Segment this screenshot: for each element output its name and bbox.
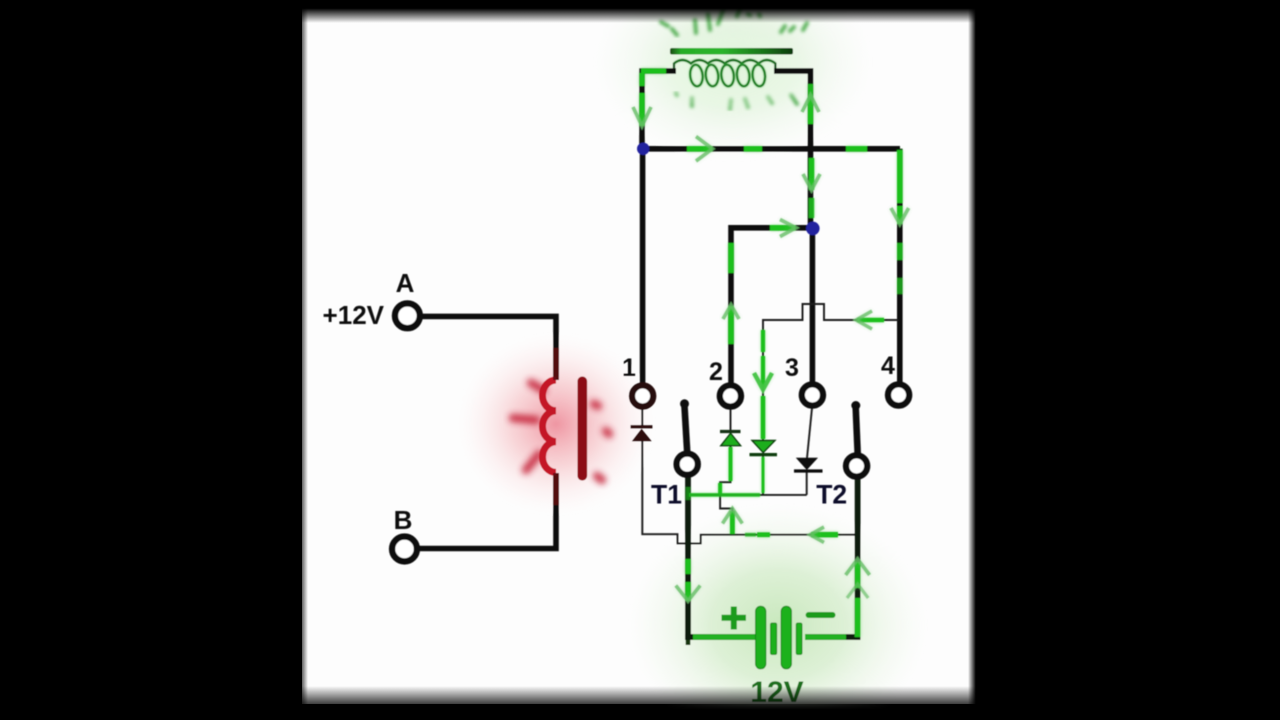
flow: wire2 up <box>728 243 734 273</box>
flow: T1 stem <box>686 487 691 500</box>
top coil L1 : scalloped top line <box>674 60 775 71</box>
flow: mid rail <box>689 493 760 497</box>
flow: bottom wire <box>745 533 756 537</box>
junction node 1 <box>637 143 649 155</box>
battery minus sign <box>809 612 833 618</box>
flow: down link to D3 <box>761 330 765 352</box>
thin: jog down to bottom wire <box>720 495 732 535</box>
svg-text:2: 2 <box>709 358 723 386</box>
wire: B to red transformer <box>417 473 556 549</box>
terminal 4 <box>888 384 909 405</box>
diode D1 (dark) <box>631 427 653 441</box>
white schematic panel <box>301 8 977 704</box>
thin: top link wire with hop <box>763 304 898 441</box>
flow: wire down to node2 <box>809 158 815 190</box>
glow of top coil <box>593 0 873 162</box>
thin: terminal3 to diode D4 <box>807 408 812 459</box>
thin wires <box>642 304 898 543</box>
flow: wire4 down <box>897 150 903 203</box>
svg-text:+12V: +12V <box>323 300 385 330</box>
battery cell plates <box>756 606 802 669</box>
thick black wires <box>417 71 900 549</box>
diode D4 (black, down) <box>794 458 823 471</box>
red transformer wire tint <box>553 348 559 505</box>
T1 stem tail below rail <box>686 637 691 645</box>
svg-text:1: 1 <box>622 354 636 382</box>
wire: node to terminal 1 <box>640 149 646 386</box>
battery rail bright segments <box>693 620 858 637</box>
thin: terminal1 to diode D1 <box>641 407 643 427</box>
coil haze <box>658 34 808 110</box>
green spark streaks below coil <box>676 93 797 109</box>
switch T2 contact <box>846 455 867 476</box>
top coil loops <box>689 64 766 87</box>
flow: jog up arrow <box>730 511 735 534</box>
flow: link wire leftward arrow <box>857 318 884 323</box>
wire: bus to terminal 4 <box>897 149 903 386</box>
battery plus sign <box>722 607 747 630</box>
T1 lever <box>684 403 687 452</box>
thin: D2 down with jog to mid rail <box>720 446 730 496</box>
flow: bus arrow <box>687 146 713 152</box>
wire: horizontal bus <box>641 146 900 152</box>
flow: into node2 <box>770 225 796 231</box>
T2 lever <box>856 405 858 454</box>
red transformer core bar <box>578 377 588 481</box>
svg-text:T2: T2 <box>816 480 847 510</box>
terminal B <box>392 537 417 562</box>
svg-text:A: A <box>396 268 415 298</box>
svg-text:4: 4 <box>881 352 895 380</box>
terminal 1 <box>632 385 653 406</box>
wire: coil left lead down to node <box>642 71 676 150</box>
flow: D2 lower link <box>729 447 733 481</box>
coil green sheen <box>674 60 775 87</box>
red transformer coil (3 bumps) <box>542 380 556 472</box>
video frame fades <box>0 0 1280 23</box>
diode D2 (green, up) <box>720 432 741 446</box>
wire: coil right lead down across bus <box>774 71 811 228</box>
thin: D3 down to mid rail <box>762 456 764 495</box>
flow: T2 stem <box>855 562 861 588</box>
T1 lever cap <box>680 399 689 408</box>
T1 stem down to battery rail <box>685 476 691 640</box>
diode D3 (green, down) <box>750 441 778 455</box>
junction node 2 <box>806 222 820 236</box>
T2 lever cap <box>851 401 860 410</box>
transformer core bar (top) <box>670 48 793 55</box>
wire: node2 to terminal 2 <box>731 228 812 386</box>
flow: right coil lead <box>808 84 814 95</box>
wire: A to red transformer <box>419 316 556 380</box>
flow: left lead of top coil <box>639 73 645 86</box>
green flow glow <box>633 71 909 637</box>
terminal A <box>395 303 420 328</box>
svg-text:3: 3 <box>785 354 799 382</box>
red spark streaks <box>513 383 609 480</box>
switch T1 contact <box>677 454 698 475</box>
green spark streaks above coil <box>661 8 807 35</box>
svg-text:T1: T1 <box>651 480 682 510</box>
thin: mid horizontal rail <box>688 494 807 496</box>
terminal 2 <box>720 385 741 406</box>
green flow overlay <box>633 71 909 637</box>
thin: terminal2 to diode D2 <box>730 407 732 432</box>
thin: D4 to mid rail <box>806 472 808 495</box>
thin: D1 down and along bottom with notch under T1 <box>642 441 856 543</box>
terminal 3 <box>802 384 823 405</box>
svg-text:B: B <box>394 505 413 535</box>
glow of red transformer <box>456 332 656 516</box>
wire: node2 down to terminal 3 <box>810 228 816 385</box>
T2 stem down to battery rail <box>855 478 861 640</box>
battery bottom rail <box>685 634 860 640</box>
glow of battery <box>628 503 928 720</box>
